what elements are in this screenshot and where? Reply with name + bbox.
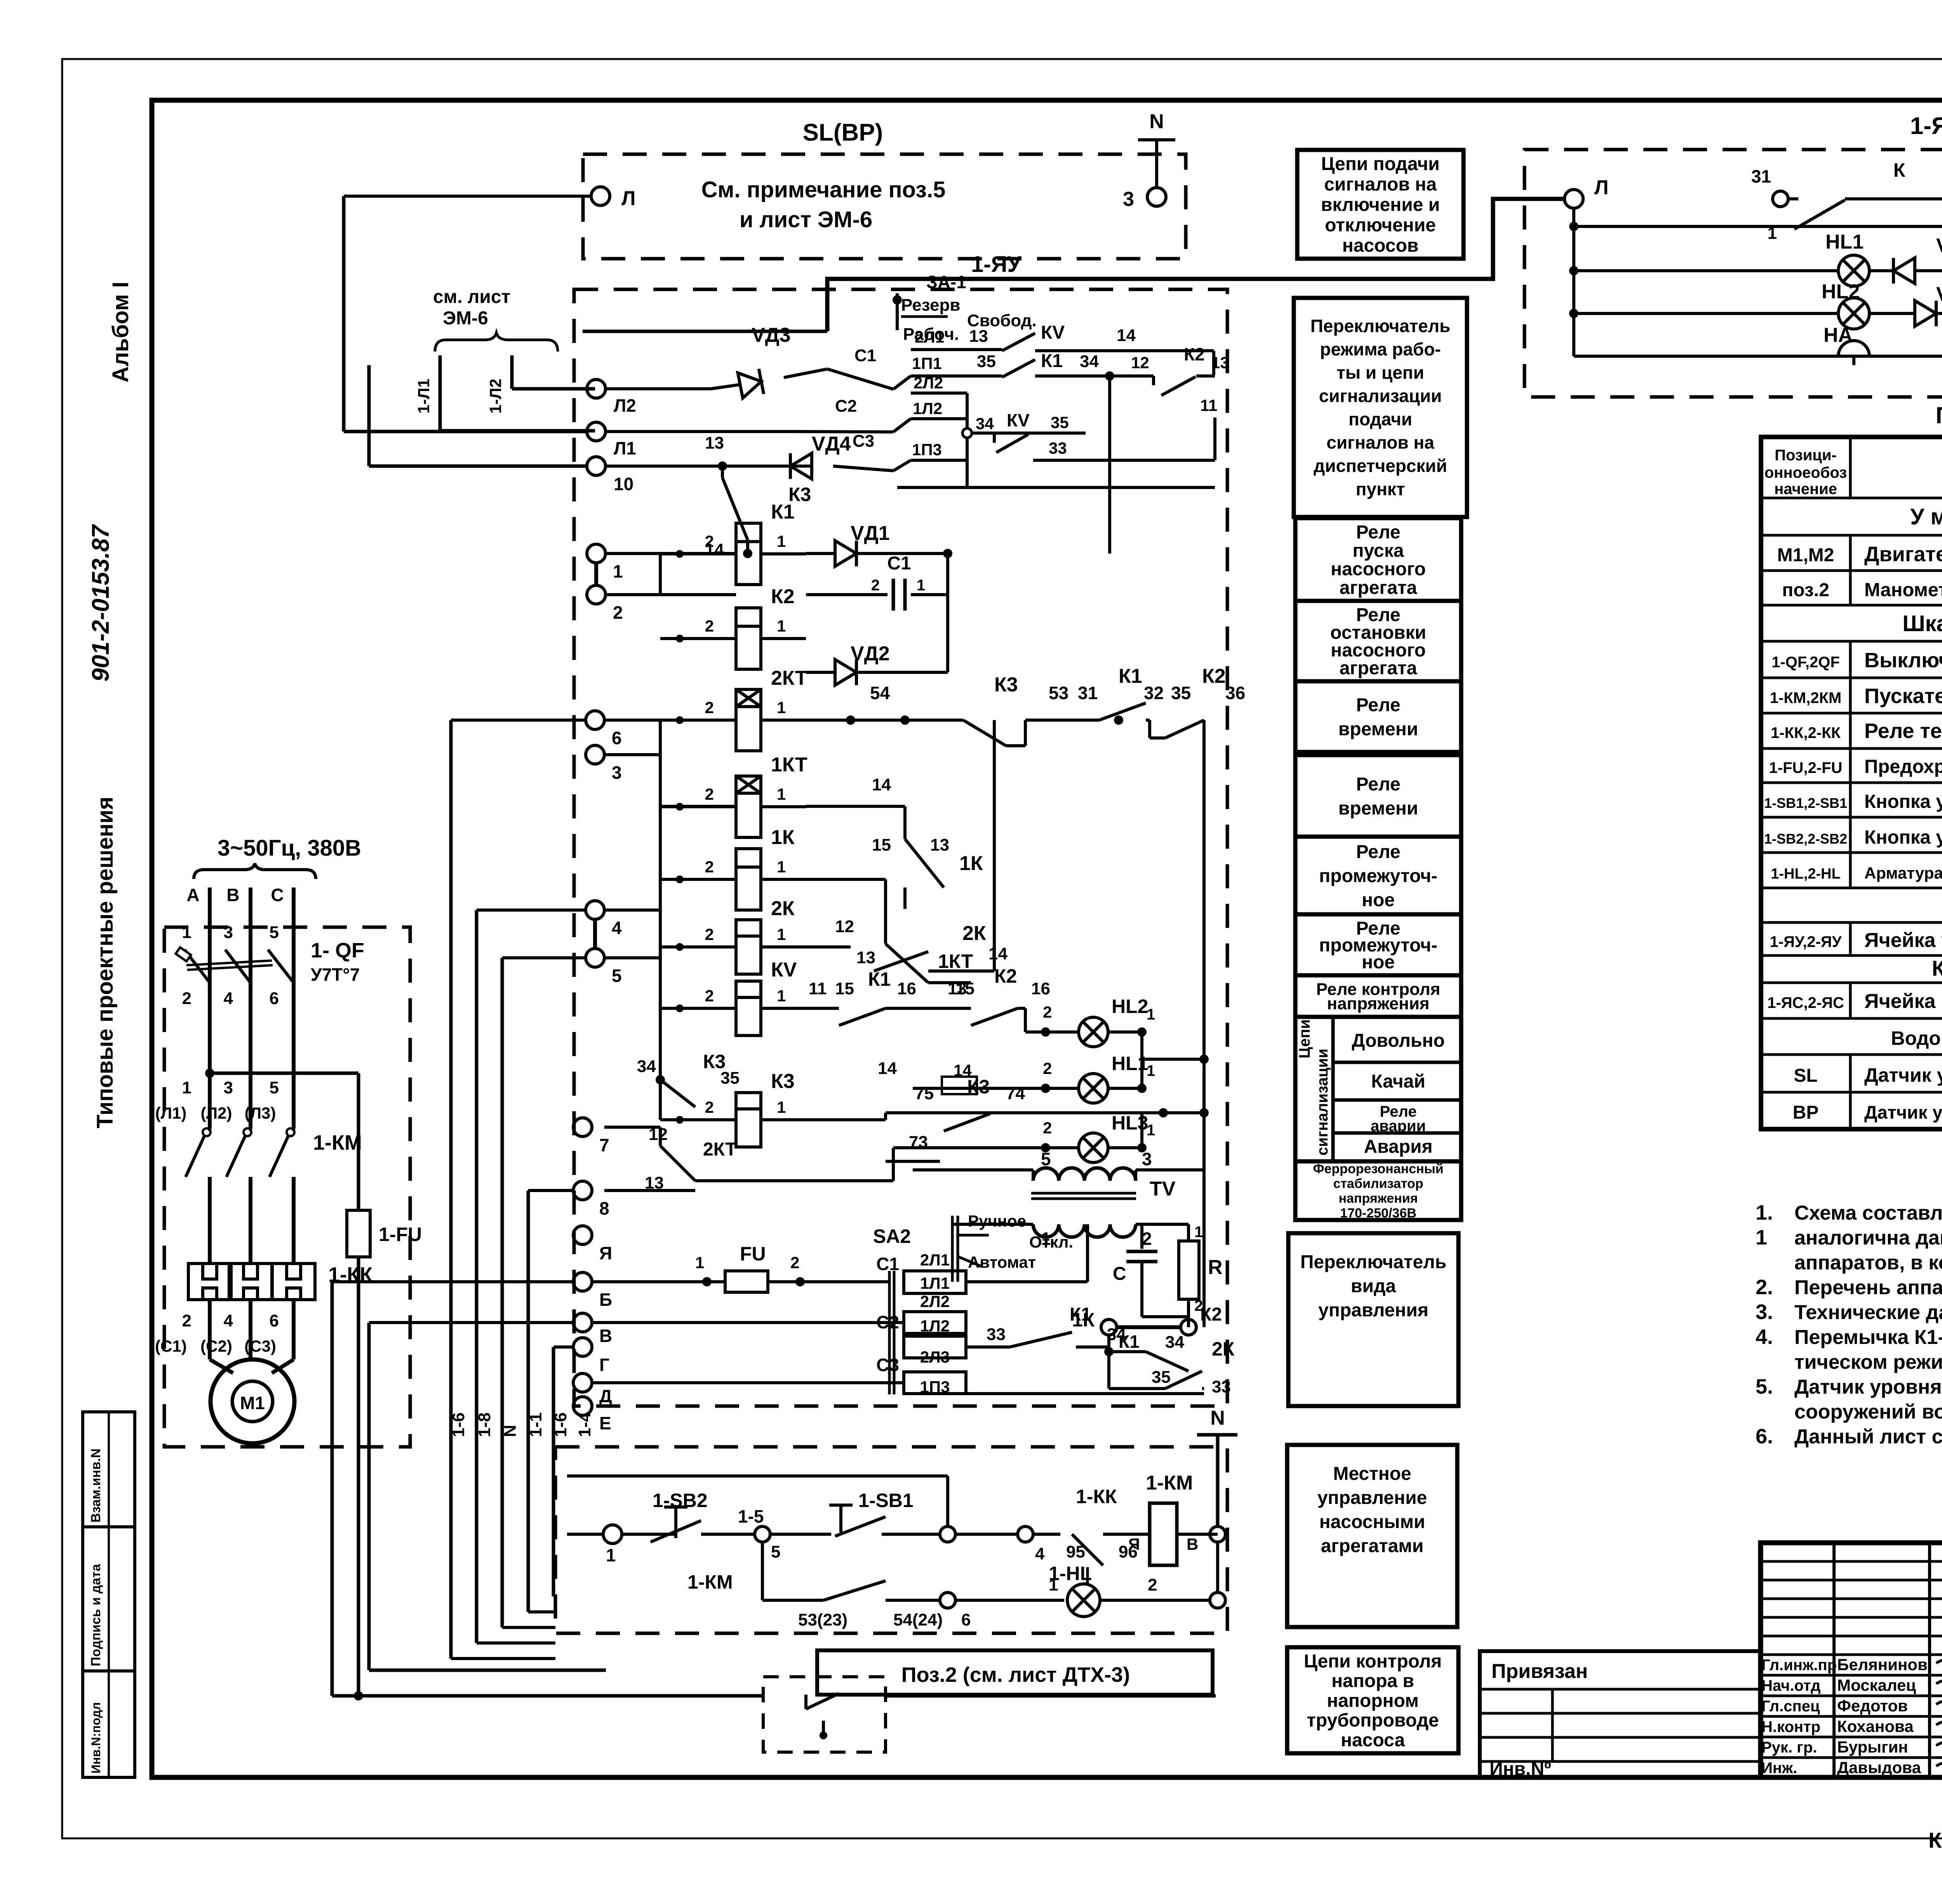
wires below KK [208,1300,212,1359]
terminal 2 [587,585,606,604]
RC bottom wire [1142,1315,1189,1318]
svg-text:сигналов на: сигналов на [1324,174,1437,195]
svg-text:1-ЯУ: 1-ЯУ [971,252,1021,277]
svg-text:VД1: VД1 [851,522,890,545]
svg-text:1-HL,2-HL: 1-HL,2-HL [1771,866,1840,882]
svg-text:Резерв: Резерв [901,296,960,315]
svg-text:N: N [501,1425,520,1437]
svg-text:отключение: отключение [1325,215,1436,235]
svg-text:У механизма: У механизма [1910,504,1942,529]
svg-text:У7Т°7: У7Т°7 [311,964,360,985]
svg-text:Манометр электроконтактный ЭКМ: Манометр электроконтактный ЭКМ-1У [1864,580,1942,600]
svg-text:1-SB2,2-SB2: 1-SB2,2-SB2 [1764,831,1847,847]
svg-text:35: 35 [720,1069,740,1088]
svg-text:подачи: подачи [1349,409,1412,429]
svg-text:Довольно: Довольно [1352,1030,1444,1051]
svg-text:2Л2: 2Л2 [914,374,943,392]
svg-text:8: 8 [599,1198,609,1218]
svg-text:1Л2: 1Л2 [920,1317,950,1335]
contact 1КТ 12-11-13 [806,878,886,881]
svg-text:Е: Е [599,1413,611,1433]
svg-text:Датчик уровня манометрически: Датчик уровня манометрический ДМ-375 [1864,1102,1942,1123]
terminal Е [573,1397,592,1415]
svg-text:Д: Д [599,1386,612,1406]
svg-text:ное: ное [1362,952,1395,973]
svg-text:Схема составлена для насоса: Схема составлена для насоса №1. Для насо… [1794,1202,1942,1224]
svg-text:1К: 1К [771,826,795,849]
svg-text:35: 35 [1171,683,1191,703]
wire to coil К2 [660,637,736,640]
svg-text:SА2: SА2 [873,1225,911,1247]
svg-text:53: 53 [1049,683,1068,703]
svg-text:2: 2 [705,987,714,1005]
relay coil 2К [736,920,761,974]
svg-text:VД4: VД4 [812,433,851,455]
svg-text:поз.2: поз.2 [1782,580,1829,600]
lamp HL2 row [1025,1030,1079,1034]
relay coil 1КТ [736,776,761,837]
svg-text:33: 33 [1049,439,1067,457]
lamp HL3 row [893,1161,940,1181]
svg-text:3~50Гц, 380В: 3~50Гц, 380В [218,835,361,861]
svg-text:1: 1 [777,698,786,717]
1-ЯС signalling cell dashed box [1524,150,1942,397]
svg-text:1: 1 [777,532,786,550]
svg-text:Реле: Реле [1356,522,1400,543]
svg-text:75: 75 [915,1084,934,1103]
wire 10 from bus [369,465,587,468]
node 4 [1018,1526,1033,1542]
svg-text:4: 4 [224,1311,233,1330]
svg-text:34: 34 [637,1057,656,1076]
terminal Д [573,1373,592,1392]
svg-text:35: 35 [977,352,996,371]
relay coil К2 [736,608,761,669]
svg-text:К2: К2 [1200,1304,1222,1325]
bus of 1-ЯС [1572,208,1575,356]
trunk vertical circuit 1-1 [527,1190,530,1612]
terminal Б [573,1272,592,1291]
svg-text:1: 1 [695,1253,704,1272]
contact 2К 13-14 [806,945,851,949]
svg-text:Реле: Реле [1356,774,1400,795]
svg-text:Переключатель: Переключатель [1310,316,1451,336]
svg-text:2Л1: 2Л1 [915,328,944,346]
svg-text:агрегата: агрегата [1340,578,1417,598]
svg-text:К3: К3 [788,484,811,505]
diode VД3 on slant wire [606,387,711,390]
svg-text:К2: К2 [1202,665,1226,687]
svg-text:14: 14 [705,540,724,559]
svg-text:34: 34 [1165,1333,1184,1352]
SL(BP) sensor dashed box [583,154,1186,259]
svg-text:1: 1 [613,561,623,581]
wire bus to Поз.2 [332,1694,763,1698]
svg-text:М1: М1 [240,1393,265,1413]
wire HL1 row [1574,269,1942,272]
svg-text:3: 3 [1142,1149,1152,1169]
trunk horizontal join to local box [369,1669,606,1672]
svg-text:Ячейка управления: Ячейка управления [1864,929,1942,952]
diode VД3 [1893,258,1915,284]
svg-text:Кнопка управления КЕ011УЗ ис: Кнопка управления КЕ011УЗ исполн.2 [1864,791,1942,812]
svg-text:Переключатель: Переключатель [1300,1252,1446,1272]
svg-text:1: 1 [777,925,786,943]
svg-text:К2: К2 [1184,344,1205,364]
svg-text:2: 2 [1043,1003,1052,1021]
margin stamp box Инв.N подл [83,1671,135,1777]
svg-text:2Л3: 2Л3 [920,1348,950,1366]
svg-text:насоса: насоса [1341,1730,1405,1751]
terminal 6 [586,711,604,729]
svg-text:В: В [1187,1535,1198,1553]
relay coil КV [736,981,761,1036]
resistor R [1179,1241,1199,1299]
terminal Я [573,1226,592,1244]
svg-text:Реле тепловое: Реле тепловое [1864,719,1942,743]
svg-text:Шкаф управления Ш: Шкаф управления Ш [1902,611,1942,636]
svg-text:13: 13 [969,327,988,346]
svg-text:Инв.Nº: Инв.Nº [1490,1759,1551,1779]
svg-text:С2: С2 [835,397,857,416]
svg-text:Цепи подачи: Цепи подачи [1321,154,1439,174]
svg-text:насосного: насосного [1331,559,1426,580]
svg-text:НА: НА [1824,324,1853,346]
svg-text:14: 14 [1117,326,1136,345]
row 3 wire [604,753,660,756]
svg-text:1.: 1. [1756,1201,1773,1224]
svg-text:вида: вида [1351,1276,1396,1297]
svg-text:31: 31 [1078,683,1098,703]
svg-text:1: 1 [777,858,786,876]
svg-text:(Л3): (Л3) [245,1104,276,1122]
svg-text:4: 4 [224,989,233,1008]
terminal 7 [573,1118,592,1136]
svg-text:С: С [1113,1264,1126,1284]
svg-text:агрегата: агрегата [1340,658,1417,679]
svg-text:Инв.N:подл: Инв.N:подл [89,1702,103,1773]
svg-text:ЭМ-6: ЭМ-6 [443,308,488,329]
svg-text:1-ЯС,2-ЯС: 1-ЯС,2-ЯС [1767,994,1844,1011]
svg-text:напряжения: напряжения [1339,1191,1418,1206]
svg-text:аппаратов, в которой индекс „: аппаратов, в которой индекс „1" меняется… [1794,1251,1942,1274]
svg-text:Привязан: Привязан [1491,1660,1588,1683]
svg-text:Л: Л [621,187,636,210]
terminal 8 [573,1181,592,1200]
КV row contacts [806,1007,839,1010]
lamp HL1 row [913,1087,1079,1090]
svg-text:FU: FU [740,1243,766,1265]
node lamp right [1210,1592,1225,1608]
lamp HL1 [1838,255,1869,286]
svg-text:Реле: Реле [1356,695,1400,715]
svg-text:34: 34 [1107,1325,1126,1344]
svg-text:13: 13 [856,948,875,967]
terminal Л1 [587,422,606,441]
node 6 [940,1592,955,1608]
svg-text:1: 1 [777,1098,786,1116]
svg-text:К2: К2 [771,585,795,608]
svg-text:1: 1 [1756,1226,1767,1249]
svg-text:Бурыгин: Бурыгин [1837,1738,1908,1756]
wire Л1 from bus [344,430,587,433]
svg-text:1-QF,2QF: 1-QF,2QF [1771,654,1840,671]
svg-text:Федотов: Федотов [1837,1697,1908,1715]
description label boxes [1297,150,1463,259]
svg-text:Датчик уровня выбирается в: Датчик уровня выбирается в зависимости о… [1794,1376,1942,1398]
svg-text:Рук. гр.: Рук. гр. [1761,1739,1817,1756]
svg-text:31: 31 [1751,166,1771,186]
svg-text:34: 34 [976,414,994,433]
svg-text:Технические данные электрооб: Технические данные электрооборудования с… [1794,1301,1942,1324]
trunk bends to terminals [451,719,586,722]
wire to KK contact [955,1533,1018,1536]
svg-text:Гл.инж.пр: Гл.инж.пр [1761,1657,1837,1674]
svg-text:С1: С1 [887,553,911,574]
cabinet Ш dashed enclosure [164,927,410,1447]
svg-text:1: 1 [1194,1224,1203,1241]
right internal bus of 1-ЯУ [1202,720,1206,1327]
svg-text:Ячейка сигнализации ЯС-373: Ячейка сигнализации ЯС-373 [1864,990,1942,1013]
diode VД4 on row 10 [790,453,812,479]
svg-text:14: 14 [872,775,891,794]
wire to coil КV [660,1007,736,1010]
svg-text:R: R [1208,1256,1223,1279]
svg-text:Автомат: Автомат [968,1253,1036,1271]
svg-text:насосными: насосными [1319,1512,1425,1532]
svg-text:1К: 1К [1072,1309,1095,1331]
svg-text:Выключатель: Выключатель [1864,649,1942,672]
svg-text:2: 2 [705,698,714,717]
svg-text:1-FU,2-FU: 1-FU,2-FU [1769,759,1843,776]
svg-text:КV: КV [1041,322,1065,343]
svg-text:Н.контр: Н.контр [1761,1718,1820,1735]
svg-text:напора в: напора в [1331,1671,1414,1692]
svg-text:2: 2 [182,1311,191,1330]
svg-text:1: 1 [1147,1006,1155,1023]
lamp HL2 [1838,298,1869,329]
local control dashed box [555,1447,1227,1633]
svg-text:5: 5 [612,966,622,986]
svg-text:Л1: Л1 [614,438,636,458]
svg-text:времени: времени [1338,798,1418,819]
svg-text:15: 15 [955,979,974,998]
svg-text:1: 1 [777,617,786,635]
svg-text:4.: 4. [1756,1325,1773,1349]
svg-text:2: 2 [705,1098,714,1116]
svg-text:11: 11 [809,979,827,998]
diode VД1 [835,541,856,566]
svg-text:К3: К3 [771,1070,795,1093]
wire to coil К3 [660,1118,736,1121]
svg-text:(Л2): (Л2) [201,1104,232,1122]
svg-text:2: 2 [613,602,623,623]
svg-text:Копировал: Копировал [1928,1828,1942,1852]
svg-text:1П3: 1П3 [912,440,942,459]
svg-text:5: 5 [270,923,279,942]
wire loop right of VD1 [946,553,949,672]
svg-text:2: 2 [705,617,714,635]
svg-text:SL: SL [1794,1065,1817,1086]
relay coil 1К [736,849,761,910]
svg-text:(С2): (С2) [200,1337,232,1355]
svg-text:1-6: 1-6 [449,1412,468,1437]
svg-text:1-SB1,2-SB1: 1-SB1,2-SB1 [1764,795,1847,811]
terminal Л of 1-ЯС [1564,190,1583,208]
svg-text:напряжения: напряжения [1327,994,1430,1013]
svg-text:КV: КV [771,959,797,981]
K1 K2 feed bus [606,552,736,555]
svg-text:К3: К3 [994,674,1018,696]
svg-text:3: 3 [1123,188,1134,211]
svg-text:2: 2 [705,785,714,803]
svg-text:1-Л2: 1-Л2 [486,379,505,414]
svg-text:N: N [1149,110,1164,133]
terminal 1 local [603,1525,622,1544]
svg-text:170-250/36В: 170-250/36В [1340,1206,1416,1220]
svg-text:2К: 2К [962,922,986,945]
wire to coil 1КТ [660,805,736,808]
svg-text:1-КМ,2КМ: 1-КМ,2КМ [1770,689,1841,707]
svg-text:Коханова: Коханова [1837,1717,1914,1735]
svg-text:16: 16 [1031,979,1050,998]
trunk vertical circuit N [501,958,504,1627]
svg-text:Двигатель: Двигатель [1864,543,1942,566]
pressure sensor dashed box [763,1677,886,1752]
svg-text:VД3: VД3 [1936,235,1942,257]
svg-text:2Л1: 2Л1 [920,1251,950,1269]
svg-text:1-8: 1-8 [475,1412,494,1437]
svg-text:5: 5 [1041,1149,1051,1169]
wire 1-Л1 [439,355,442,431]
svg-text:см. лист: см. лист [433,287,510,307]
svg-text:насосов: насосов [1342,235,1419,256]
svg-text:1: 1 [917,577,925,594]
svg-text:К1: К1 [868,968,891,990]
svg-text:(Л1): (Л1) [155,1104,187,1122]
phase line C [292,888,296,1126]
svg-text:1-КМ: 1-КМ [687,1571,733,1593]
svg-text:74: 74 [1006,1084,1025,1103]
svg-text:Кнопка управления КЕ011УЗ ис: Кнопка управления КЕ011УЗ исполн.2 [1864,827,1942,848]
margin stamp box Взам.инв.N [83,1412,135,1527]
svg-text:1-FU: 1-FU [379,1224,422,1245]
wire to coil К1 [660,552,736,555]
wire TV bottom [952,1223,1033,1226]
svg-text:6: 6 [612,728,622,748]
svg-text:К2: К2 [994,965,1017,987]
svg-text:включение и: включение и [1321,195,1440,215]
svg-text:1-КМ: 1-КМ [313,1131,362,1154]
svg-text:7: 7 [599,1135,609,1155]
wire 1-Л2 [510,355,514,389]
svg-text:6: 6 [961,1610,971,1629]
svg-text:А: А [186,885,199,905]
svg-text:53(23): 53(23) [798,1610,847,1629]
terminal 4 [586,901,604,919]
svg-text:См. примечание поз.5: См. примечание поз.5 [701,177,946,202]
wire HL2 row [1574,312,1942,315]
svg-text:сигнализации: сигнализации [1314,1049,1331,1156]
svg-text:пуска: пуска [1353,540,1404,561]
wire below QF [208,983,212,1128]
svg-text:ЗА-1: ЗА-1 [926,272,966,292]
svg-text:1-КМ: 1-КМ [1146,1472,1193,1494]
fuse 1-FU [357,1073,360,1210]
svg-text:Подпись и дата: Подпись и дата [89,1563,103,1666]
svg-text:Цепи: Цепи [1296,1019,1313,1058]
top row wire in 1-ЯС [1574,225,1942,228]
supply brace [194,863,316,879]
diode VД4 [1915,301,1936,326]
svg-text:2: 2 [1043,1059,1052,1077]
svg-text:1: 1 [1049,1575,1058,1594]
contact 1-КМ 53-54 hold [761,1542,764,1600]
svg-text:управления: управления [1318,1300,1429,1321]
trunk vertical circuit 1-8 [475,910,479,1643]
svg-text:Авария: Авария [1364,1136,1432,1157]
bottom return row [897,486,1215,489]
junction to FU tap [205,1069,214,1078]
relay coil К1 [736,523,761,585]
wire to SL terminal Л [344,195,591,198]
title block [1761,1543,1942,1777]
svg-text:сигналов на: сигналов на [1326,432,1434,453]
trunk 1-10 vertical [367,365,371,466]
contact row 34 KV 35 33 [962,428,972,438]
svg-text:VД3: VД3 [752,324,791,346]
bottom wire of gang [966,1392,1204,1395]
svg-text:HL2: HL2 [1112,996,1148,1017]
svg-text:32: 32 [1144,683,1164,703]
svg-text:12: 12 [835,917,854,936]
svg-text:агрегатами: агрегатами [1321,1536,1424,1556]
button 1-SB2 stop [622,1533,676,1536]
node after SB1 [940,1526,955,1542]
svg-text:Давыдова: Давыдова [1837,1758,1921,1777]
svg-text:14: 14 [988,944,1008,963]
svg-text:36: 36 [1225,683,1245,703]
trunk vertical circuit 1-4 [552,1347,555,1596]
svg-text:С: С [271,885,284,905]
svg-text:Я: Я [1128,1535,1140,1553]
svg-text:С3: С3 [853,432,874,451]
terminal Л of SL box [591,187,610,205]
svg-text:напорном: напорном [1327,1690,1419,1711]
svg-text:6: 6 [270,1311,279,1330]
junction dot K1 row [943,549,952,558]
svg-text:1: 1 [1147,1122,1155,1139]
svg-text:3: 3 [224,923,233,942]
svg-text:1КТ: 1КТ [771,754,807,776]
svg-text:управление: управление [1317,1488,1427,1508]
svg-text:Арматура светосигнальная АЕ321: Арматура светосигнальная АЕ321211 2У2,U~… [1864,864,1942,882]
Привязан box [1480,1651,1761,1777]
svg-text:Позици-: Позици- [1775,447,1837,464]
diode VД2 [835,660,856,685]
svg-text:6.: 6. [1756,1425,1773,1448]
svg-text:1- QF: 1- QF [311,939,364,962]
svg-text:2КТ: 2КТ [703,1139,737,1160]
svg-text:Пускатель: Пускатель [1864,684,1942,708]
svg-text:4: 4 [612,918,622,938]
top feed wire local [567,1474,948,1478]
terminal 10 [587,457,606,475]
svg-text:2: 2 [182,989,191,1008]
svg-text:SL(ВР): SL(ВР) [803,119,883,146]
pressure contact symbol [804,1695,807,1709]
svg-text:VД4: VД4 [1936,283,1942,306]
